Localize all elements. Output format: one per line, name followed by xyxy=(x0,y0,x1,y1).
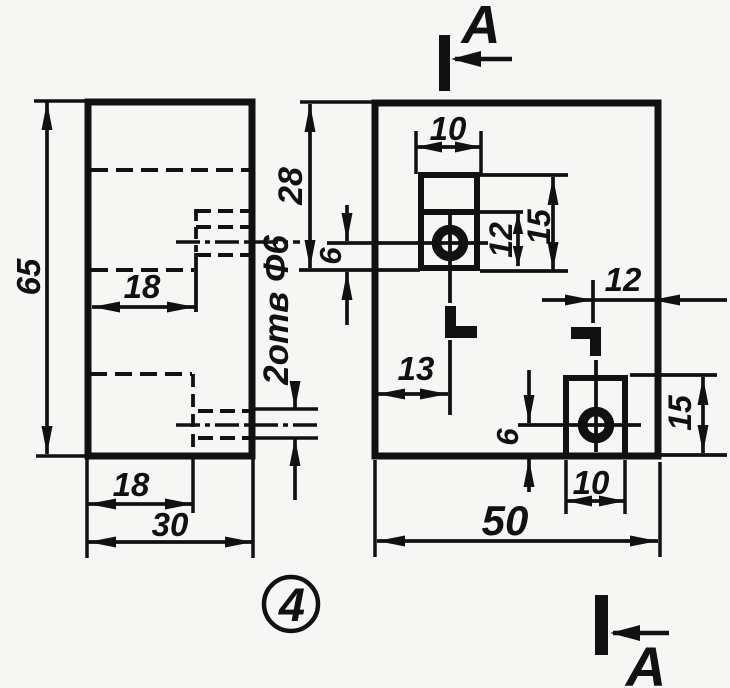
dia6 lower arrow shaft xyxy=(293,438,297,500)
section mark top arrow shaft xyxy=(455,57,512,62)
extension line below right view right xyxy=(658,462,662,557)
dimension 12 (boss) bottom arrow xyxy=(513,246,523,267)
dimension 6 (bottom) upper arrow xyxy=(524,395,535,423)
hidden line upper tab top xyxy=(196,209,250,213)
dimension 18 (inner) right arrow xyxy=(167,302,195,313)
dimension 50 line xyxy=(377,539,658,543)
hidden vertical upper tab edge xyxy=(194,209,198,252)
dimension 13 line xyxy=(377,392,448,396)
svg-text:10: 10 xyxy=(430,110,467,147)
dimension 12 (top right) left arrow xyxy=(565,295,593,306)
extension line boss bottom right xyxy=(480,269,568,273)
dimension 15 (boss) top arrow xyxy=(548,177,559,205)
hidden line lower cavity xyxy=(90,372,192,376)
hidden line top cavity xyxy=(91,168,250,172)
dimension 10 (bottom) line xyxy=(566,499,625,503)
dimension 6 (bottom) lower arrow xyxy=(524,459,535,487)
dimension 30 line xyxy=(88,540,253,544)
dimension 65 top arrow xyxy=(42,102,53,130)
dimension 6 (bottom) lower shaft xyxy=(527,459,531,492)
dimension 6 (bottom) upper shaft xyxy=(527,370,531,423)
top hole centerline extension down (13 dim) xyxy=(448,340,452,415)
dimension 10 (bottom) left arrow xyxy=(566,496,592,507)
svg-text:18: 18 xyxy=(113,466,150,503)
dimension 18 (inner) line xyxy=(92,305,195,309)
extension line below right view left xyxy=(373,460,377,557)
step edge solid vertical xyxy=(194,253,198,312)
svg-text:4: 4 xyxy=(278,578,305,631)
dimension 18 (bottom) line xyxy=(88,502,193,506)
dimension 28 top arrow xyxy=(305,104,316,132)
left view outline xyxy=(88,102,252,456)
dimension 6 upper shaft xyxy=(345,205,349,241)
extension line 28 top xyxy=(300,100,375,104)
section bend mark 1 vertical xyxy=(445,306,456,338)
svg-text:A: A xyxy=(460,0,501,55)
dia6 upper arrow xyxy=(290,381,301,409)
dimension 28 bottom arrow xyxy=(305,240,316,268)
svg-text:2отв Ф6: 2отв Ф6 xyxy=(257,235,296,386)
svg-text:12: 12 xyxy=(483,222,519,258)
extension line 10 bottom left xyxy=(564,460,568,514)
section mark top arrow xyxy=(451,51,481,67)
svg-text:15: 15 xyxy=(521,208,557,245)
section mark bottom bar xyxy=(595,595,608,655)
extension line boss mid right xyxy=(480,210,523,214)
dimension 6 upper arrow xyxy=(342,213,353,241)
right view outline xyxy=(375,103,658,456)
dimension 12 (boss) line xyxy=(516,214,520,266)
extension line 10 right xyxy=(479,131,483,174)
extension line below step xyxy=(191,458,195,513)
svg-text:18: 18 xyxy=(124,268,161,305)
dimension 15 (bottom) top arrow xyxy=(698,377,709,405)
extension line 12 (hole centerline up) xyxy=(591,280,595,323)
section mark bottom arrow shaft xyxy=(613,631,669,636)
section bend mark 1 horizontal xyxy=(456,326,477,338)
svg-text:10: 10 xyxy=(573,464,610,501)
svg-text:A: A xyxy=(624,635,666,688)
bottom hole vertical centerline xyxy=(594,360,598,452)
extension line boss top right xyxy=(480,173,568,177)
svg-text:13: 13 xyxy=(398,350,435,387)
centerline upper hole (left view) xyxy=(176,240,300,244)
bottom boss square xyxy=(566,378,625,456)
hidden line lower hole bottom edge xyxy=(198,436,250,440)
svg-text:15: 15 xyxy=(662,394,698,431)
dimension 15 (boss) bottom arrow xyxy=(548,242,559,270)
dimension 18 (bottom) right arrow xyxy=(165,499,193,510)
section bend mark 2 horizontal xyxy=(571,327,601,339)
position number circle xyxy=(264,577,318,631)
extension line 15 top (bottom boss) xyxy=(630,373,717,377)
extension line below left edge xyxy=(85,456,89,558)
bottom hole circle xyxy=(583,412,610,439)
extension line bottom left xyxy=(36,454,85,458)
top hole circle xyxy=(437,230,464,257)
dimension 12 (top right) right arrow xyxy=(652,295,680,306)
dimension 30 left arrow xyxy=(88,537,116,548)
section mark top bar xyxy=(439,35,450,91)
extension line below right edge xyxy=(251,458,255,558)
svg-text:12: 12 xyxy=(605,261,642,298)
bottom hole horizontal centerline xyxy=(518,423,641,427)
dimension 6 lower shaft xyxy=(345,272,349,325)
dimension 15 (bottom) bottom arrow xyxy=(698,425,709,453)
dia6 upper arrow shaft xyxy=(293,381,297,409)
dimension 13 left arrow xyxy=(377,389,405,400)
svg-text:6: 6 xyxy=(313,247,348,265)
hidden line upper hole lower edge xyxy=(196,253,250,257)
centerline lower hole (left view) xyxy=(176,423,318,427)
hidden line mid cavity xyxy=(91,268,194,272)
dimension 65 line xyxy=(45,102,49,454)
dimension 6 lower arrow xyxy=(342,272,353,300)
svg-text:65: 65 xyxy=(10,258,47,295)
dimension 30 right arrow xyxy=(225,537,253,548)
dimension 12 (top right) line xyxy=(542,298,727,302)
top boss square xyxy=(421,175,477,268)
top boss inner line xyxy=(418,209,480,215)
dimension 28 line xyxy=(308,104,312,268)
horizontal centerline through both views xyxy=(327,241,488,245)
dimension 13 right arrow xyxy=(420,389,448,400)
extension line 10 bottom right xyxy=(623,460,627,514)
dimension 15 (boss) line xyxy=(551,177,555,270)
extension line lower hole bottom xyxy=(253,436,318,440)
dimension 10 right arrow xyxy=(455,142,481,153)
dimension 18 (bottom) left arrow xyxy=(88,499,116,510)
hidden line lower hole top edge xyxy=(198,409,250,413)
dimension 15 (bottom) line xyxy=(701,377,705,453)
svg-text:28: 28 xyxy=(272,167,310,206)
extension line 28/6 bottom xyxy=(299,268,420,272)
section bend mark 2 vertical xyxy=(590,339,601,356)
dimension 50 right arrow xyxy=(630,536,658,547)
svg-text:50: 50 xyxy=(482,497,529,544)
dimension 50 left arrow xyxy=(377,536,405,547)
dia6 lower arrow xyxy=(290,438,301,466)
dimension 10 (bottom) right arrow xyxy=(599,496,625,507)
section mark bottom arrow xyxy=(610,625,640,641)
dimension 10 line xyxy=(416,145,481,149)
extension line 15 bottom (bottom boss) xyxy=(661,453,727,457)
dimension 65 bottom arrow xyxy=(42,426,53,454)
top hole vertical centerline xyxy=(448,214,452,303)
hidden line upper tab bottom xyxy=(196,225,250,229)
extension line top left xyxy=(34,99,88,103)
hidden vertical lower cavity edge xyxy=(191,374,195,452)
dimension 10 left arrow xyxy=(416,142,442,153)
dimension 18 (inner) left arrow xyxy=(92,302,120,313)
extension line 10 left xyxy=(414,131,418,174)
dimension 12 (boss) top arrow xyxy=(513,213,523,234)
svg-text:30: 30 xyxy=(152,506,189,543)
svg-text:6: 6 xyxy=(490,428,525,446)
extension line lower hole top xyxy=(253,407,318,411)
